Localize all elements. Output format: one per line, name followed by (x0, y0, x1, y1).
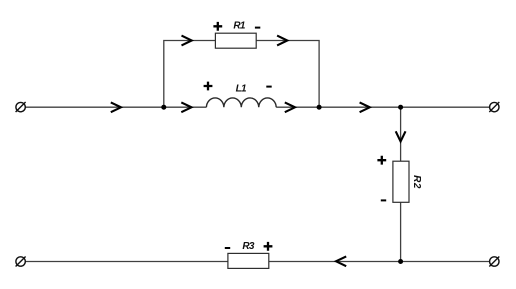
svg-text:R3: R3 (242, 241, 254, 252)
svg-text:L1: L1 (236, 83, 247, 94)
svg-text:R2: R2 (411, 175, 422, 189)
svg-text:R1: R1 (233, 20, 245, 31)
